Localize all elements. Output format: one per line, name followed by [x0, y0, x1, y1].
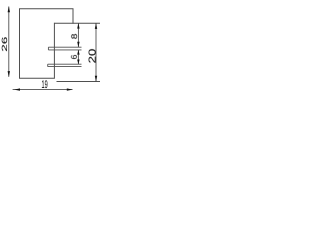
- dimension 19 line (bottom): [13, 88, 73, 90]
- svg-text:19: 19: [42, 79, 48, 91]
- body outline (stepped housing profile): [20, 9, 74, 78]
- pin tab 1 (upper terminal): [48, 47, 81, 50]
- dimension 8 line (right upper): [77, 23, 79, 47]
- svg-text:20: 20: [88, 48, 99, 63]
- background: [0, 0, 100, 100]
- dimension 26 line (left): [8, 6, 10, 77]
- dimension 20 line (far right): [95, 23, 97, 82]
- dimension 6 line (right middle): [77, 50, 79, 65]
- svg-text:8: 8: [70, 33, 79, 39]
- svg-text:6: 6: [69, 54, 79, 59]
- step edge + top extension line (y=23.2): [54, 22, 100, 24]
- svg-text:26: 26: [0, 37, 9, 52]
- bottom extension line (y=81.3): [57, 81, 101, 83]
- pin tab 2 (lower terminal): [48, 64, 82, 66]
